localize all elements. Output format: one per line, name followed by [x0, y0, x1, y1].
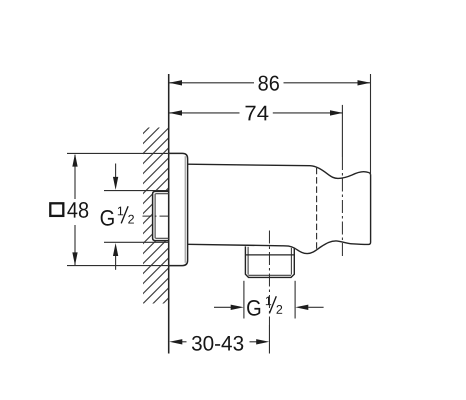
dim 48 line (lower segment)	[74, 225, 76, 265]
dim 74 right arrowhead	[330, 110, 343, 115]
svg-text:2: 2	[128, 212, 135, 226]
dim 86 left arrowhead	[169, 80, 182, 85]
dim 86 right arrowhead	[358, 80, 371, 85]
dim 86 right extension line	[370, 74, 372, 175]
dim 30-43 right extension line	[268, 325, 270, 354]
svg-text:48: 48	[67, 198, 89, 223]
dim 48 bottom extension line	[67, 265, 170, 267]
label G1/2 (outlet nipple thread)	[246, 294, 283, 320]
svg-text:2: 2	[276, 303, 283, 317]
svg-text:G: G	[100, 205, 116, 230]
dim G1/2 wall upper leader stub	[115, 164, 117, 178]
dim 86 line (left segment)	[169, 82, 254, 84]
dim G1/2 wall bottom extension line	[104, 241, 169, 243]
inlet connector centerline (dash-dot)	[143, 215, 170, 217]
svg-text:1: 1	[117, 204, 124, 218]
dim 30-43 left arrowhead (points left)	[169, 339, 182, 344]
dim 48 line (upper segment)	[74, 155, 76, 199]
dim 74 line (right segment)	[273, 112, 343, 114]
connector inner left line	[154, 194, 156, 239]
inlet connector box recessed in wall	[153, 191, 169, 240]
dim 48 bottom arrowhead	[72, 252, 77, 265]
nipple thread inner right line	[290, 248, 292, 275]
flange inner edge highlight line	[184, 156, 186, 263]
dim 74 right extension line (solid part)	[341, 105, 343, 157]
dim G1/2 wall downward arrowhead	[113, 177, 118, 190]
connector inner bottom line	[155, 237, 168, 239]
outlet nipple centerline (dash-dot)	[268, 231, 270, 326]
dim G1/2 nipple left extension line	[243, 281, 245, 319]
wall section hatching	[123, 88, 179, 374]
svg-text:74: 74	[244, 101, 269, 125]
dim 48 top extension line	[67, 152, 170, 154]
elbow body and shower holder cone outline	[188, 164, 371, 253]
svg-text:G: G	[246, 296, 262, 321]
dim 74 left arrowhead	[169, 110, 182, 115]
dim 30-43 line (left stub)	[182, 341, 187, 343]
svg-text:30-43: 30-43	[191, 333, 244, 356]
dim 48 top arrowhead	[72, 154, 77, 167]
wall face line (shared extension line of dims 86, 74 and 30-43)	[168, 74, 170, 354]
dim G1/2 wall lower leader stub	[115, 256, 117, 270]
svg-text:86: 86	[258, 72, 280, 96]
label G1/2 (wall inlet thread)	[100, 204, 135, 230]
holder cone centerline (dash-dot)	[341, 157, 343, 258]
nipple thread inner bottom line	[248, 274, 291, 276]
nipple thread shoulder line	[245, 254, 294, 256]
dim G1/2 nipple left arrowhead (points right)	[231, 305, 244, 310]
square symbol of label 48	[50, 203, 63, 216]
svg-text:1: 1	[265, 294, 272, 308]
holder cone hidden left edge (dashed)	[316, 168, 318, 249]
dim G1/2 nipple left leader line	[214, 306, 231, 308]
dim 86 line (right segment)	[284, 82, 371, 84]
dim 74 line (left segment)	[169, 112, 240, 114]
dim G1/2 wall upward arrowhead	[113, 243, 118, 256]
dim 30-43 right arrowhead (points right)	[256, 339, 269, 344]
dim G1/2 wall top extension line	[104, 190, 169, 192]
dim G1/2 nipple right arrowhead (points left)	[295, 305, 308, 310]
dim G1/2 nipple right leader line	[308, 306, 323, 308]
nipple thread inner left line	[247, 247, 249, 275]
outlet nipple outline	[245, 246, 294, 277]
dim G1/2 nipple right extension line	[294, 281, 296, 319]
dim 30-43 line (right stub)	[250, 341, 257, 343]
wall flange (escutcheon) outline	[169, 153, 188, 265]
connector inner top line	[155, 193, 168, 195]
